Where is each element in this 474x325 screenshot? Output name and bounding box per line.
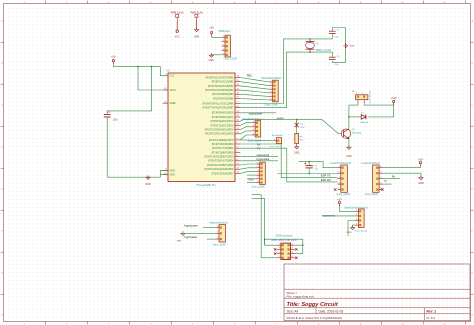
svg-text:Date: 2019-02-03: Date: 2019-02-03	[319, 309, 344, 313]
svg-text:(PCINT7/XTAL2/TOSC2)PB7: (PCINT7/XTAL2/TOSC2)PB7	[203, 107, 235, 110]
svg-text:(PCINT23/AIN1)PD7: (PCINT23/AIN1)PD7	[211, 172, 234, 175]
svg-text:(PCINT2/SS/OC1B)PB2: (PCINT2/SS/OC1B)PB2	[208, 85, 234, 88]
node ESP-TX label	[321, 173, 331, 177]
wire pump	[240, 120, 322, 122]
svg-text:(PCINT6/XTAL1/TOSC1)PB6: (PCINT6/XTAL1/TOSC1)PB6	[203, 102, 235, 105]
wire J3 pin1	[240, 123, 252, 126]
svg-text:hygropower: hygropower	[184, 224, 198, 228]
ground GND (supersonic)	[347, 225, 355, 234]
wire ESP net top	[299, 162, 338, 168]
capacitor C4 polarized	[304, 162, 318, 170]
svg-text:SuperSonicConnector1: SuperSonicConnector1	[344, 206, 368, 209]
no-connect J11 right r4	[295, 257, 297, 259]
junction J11 left	[264, 238, 266, 240]
junction cap top	[308, 161, 310, 163]
connector J11 ESPConnector Conn_02x04_Odd_Even	[271, 234, 297, 259]
wire supersonic to J9 pin2	[322, 215, 355, 217]
connector J10 HygroConnector Conn_01x03	[210, 221, 229, 246]
wire emitter down	[348, 139, 350, 148]
connector J7 LevelConvHVwired Conn_01x05	[330, 162, 352, 196]
wire AVCC	[138, 67, 168, 90]
wire PB1 to J2	[240, 82, 269, 86]
svg-text:Conn_01x06: Conn_01x06	[265, 105, 279, 107]
connector J6 EngineConnector Conn_01x06	[251, 162, 265, 188]
connector J4 ResetPhase Conn_01x02	[269, 134, 283, 148]
wire J11 top box	[265, 239, 303, 253]
svg-text:Conn_01x06: Conn_01x06	[251, 187, 265, 189]
svg-text:GND: GND	[170, 174, 176, 177]
svg-text:RX: RX	[257, 142, 261, 146]
wire J3 pin3	[240, 131, 252, 134]
power +5V (ESP)	[418, 158, 423, 166]
ground GND (crystal)	[343, 44, 354, 48]
diode D1 1N4148 flyback	[360, 112, 368, 123]
svg-text:(PCINT16/RXD)PD0: (PCINT16/RXD)PD0	[212, 143, 234, 146]
svg-text:(PCINT9/ADC1)PC1: (PCINT9/ADC1)PC1	[212, 116, 234, 119]
svg-text:(PCINT12/SDA/ADC4)PC4: (PCINT12/SDA/ADC4)PC4	[205, 129, 234, 132]
svg-text:VCC: VCC	[175, 36, 180, 38]
wire supersonic (MCU)	[240, 156, 278, 158]
svg-text:(PCINT22/OC0A/AIN0)PD6: (PCINT22/OC0A/AIN0)PD6	[204, 168, 234, 171]
svg-text:1N4148: 1N4148	[360, 122, 368, 124]
svg-text:Conn_01x01: Conn_01x01	[269, 146, 282, 148]
svg-text:+5V: +5V	[337, 198, 342, 201]
svg-text:GND: GND	[170, 169, 176, 172]
power flag PWR_FLAG #2 with GND	[190, 12, 203, 39]
ground GND (ESP)	[418, 176, 424, 186]
node RX label	[257, 142, 261, 146]
svg-text:G: G	[471, 273, 473, 275]
wire diode anode to collector	[349, 116, 361, 118]
power flag PWR_FLAG #1 with VCC	[171, 12, 184, 39]
wire J6 pin1	[240, 164, 256, 165]
svg-text:GND: GND	[347, 232, 352, 234]
svg-text:(PCINT20/XCK/T0)PD4: (PCINT20/XCK/T0)PD4	[208, 160, 234, 163]
junction cap bottom	[308, 173, 310, 175]
wire LED to R3	[296, 128, 298, 134]
svg-text:Id: 1/1: Id: 1/1	[427, 316, 436, 320]
capacitor C3 22p	[329, 56, 340, 66]
svg-text:(PCINT11/ADC3)PC3: (PCINT11/ADC3)PC3	[211, 124, 235, 127]
wire PB4 to J2	[240, 94, 269, 96]
svg-text:2N2219A: 2N2219A	[352, 131, 362, 134]
wire crystal bottom to C3	[310, 52, 332, 56]
svg-text:100n: 100n	[113, 120, 119, 122]
ground GND (USB)	[209, 53, 215, 62]
svg-text:Title: Soggy Circuit: Title: Soggy Circuit	[287, 302, 339, 308]
ground GND (MCU)	[145, 175, 151, 186]
wire collector up	[348, 105, 350, 129]
ground GND (hygro)	[177, 231, 185, 242]
power +12V	[391, 97, 397, 105]
wire J6 route A	[252, 195, 261, 258]
wire C2 to gnd rail	[332, 28, 345, 63]
wire +5V rail	[113, 64, 168, 76]
svg-text:GND: GND	[145, 183, 151, 186]
svg-text:Conn_01x04: Conn_01x04	[248, 141, 262, 143]
svg-text:PB0: PB0	[247, 74, 252, 78]
no-connect J11 left r3	[274, 252, 276, 254]
wire ESP-TX	[281, 144, 337, 178]
wire J8 pin1 to +5V	[383, 166, 421, 168]
svg-text:GND: GND	[209, 59, 215, 62]
node Rx label	[392, 175, 396, 179]
node hygrovalue label (MCU)	[257, 157, 270, 161]
svg-text:ESP-RX: ESP-RX	[321, 178, 331, 182]
wire hygrovalue to J10 pin3	[207, 238, 216, 240]
capacitor C2 22p	[329, 30, 340, 39]
power +5V (supersonic)	[337, 198, 342, 206]
svg-text:hygrovalue: hygrovalue	[184, 235, 197, 239]
svg-text:hygropower: hygropower	[249, 112, 263, 116]
svg-text:(PCINT0/CLKO/ICP1)PB0: (PCINT0/CLKO/ICP1)PB0	[206, 76, 234, 79]
wire GND pin22	[160, 174, 168, 176]
wire XTAL1 vertical	[240, 39, 310, 104]
wire J6 route B	[252, 198, 265, 245]
svg-text:GND: GND	[346, 155, 352, 158]
svg-text:HygroConnector1: HygroConnector1	[210, 221, 229, 224]
crystal Y1 16MHz	[306, 39, 332, 52]
node supersonic label (MCU)	[257, 153, 270, 157]
wire to C1	[107, 67, 151, 114]
svg-text:Conn_01x03: Conn_01x03	[213, 245, 227, 247]
wire pin2 long	[277, 173, 337, 175]
wire PB2 to J2	[240, 86, 269, 89]
node PD5 label	[249, 178, 254, 181]
svg-text:LevelConvHVwired1: LevelConvHVwired1	[330, 162, 352, 165]
svg-text:16Mhz_Crystal: 16Mhz_Crystal	[316, 49, 332, 52]
wire +5V to J9 pin1	[339, 206, 355, 211]
svg-text:ATmega328P-PU: ATmega328P-PU	[196, 184, 216, 187]
svg-text:GND: GND	[294, 151, 300, 154]
wire hygropower to J10 pin1	[203, 227, 216, 229]
node Tx label	[384, 179, 388, 183]
wire GND to J10 pin2	[183, 232, 216, 234]
svg-text:GND: GND	[418, 182, 424, 185]
svg-text:Conn_02x04_Odd_Even: Conn_02x04_Odd_Even	[271, 240, 297, 242]
connector J5 PumpConnector Conn_01x02	[352, 90, 372, 103]
svg-text:G: G	[1, 273, 3, 275]
svg-text:AVCC: AVCC	[170, 89, 177, 92]
svg-text:AREF: AREF	[170, 102, 177, 105]
svg-text:BinaryRotaryPhase: BinaryRotaryPhase	[262, 77, 283, 80]
wire PB3 to J2	[240, 90, 269, 93]
svg-text:Conn_01x05: Conn_01x05	[365, 194, 379, 196]
connector J2 BinaryRotaryPhase Conn_01x06	[262, 77, 283, 107]
svg-text:TX: TX	[257, 147, 261, 151]
wire J8 pin4 Tx	[383, 183, 392, 185]
wire J6 pin4	[247, 174, 256, 176]
junction crystal top	[309, 38, 311, 40]
wire cap stem top	[308, 162, 310, 166]
svg-text:Size: A4: Size: A4	[287, 309, 299, 313]
junction +5V rail B	[151, 66, 153, 68]
wire J11 left r4	[261, 257, 276, 259]
svg-text:ESPConnector1: ESPConnector1	[276, 234, 293, 237]
svg-text:ESP-TX: ESP-TX	[321, 173, 331, 177]
svg-text:(PCINT19/OC2B/INT1)PD3: (PCINT19/OC2B/INT1)PD3	[204, 156, 234, 159]
wire J3 pin4	[240, 135, 252, 140]
svg-text:Conn_01x05: Conn_01x05	[337, 194, 351, 196]
svg-text:VCC: VCC	[170, 75, 175, 78]
wire XTAL2 vertical	[240, 52, 310, 108]
svg-text:ResetPind1: ResetPind1	[272, 134, 284, 137]
wire J9 pin4 to GND	[353, 225, 355, 227]
svg-text:(PCINT17/TXD)PD1: (PCINT17/TXD)PD1	[212, 147, 234, 150]
junction pump	[296, 119, 298, 121]
svg-text:(PCINT21/OC0B/T1)PD5: (PCINT21/OC0B/T1)PD5	[207, 164, 234, 167]
svg-text:LevelConvHVout1: LevelConvHVout1	[362, 162, 381, 165]
op-amp U1 ATmega328P-PU microcontroller	[163, 70, 241, 187]
wire TX	[240, 147, 286, 149]
wire J3 pin2	[240, 127, 252, 130]
wire J8 pin2 to GND	[383, 173, 422, 177]
node pump label	[277, 117, 284, 120]
svg-text:(PCINT3/OC2A/MOSI)PB3: (PCINT3/OC2A/MOSI)PB3	[205, 89, 234, 92]
connector J1 USBPower Conn_01x05	[218, 30, 237, 60]
wire crystal top to C2	[310, 34, 332, 39]
svg-text:supersonic: supersonic	[322, 213, 335, 217]
connector J3 AnalogRotaryPhase Conn_01x04	[241, 118, 262, 142]
svg-text:+5V: +5V	[209, 27, 214, 30]
wire cap bottom	[308, 168, 310, 174]
node PB0 label	[247, 74, 252, 78]
wire pump conn left to collector	[349, 103, 358, 105]
junction GND rail	[147, 176, 149, 178]
node ESP-RX label	[321, 178, 331, 182]
svg-text:Conn_01x04: Conn_01x04	[355, 230, 368, 232]
wire +12V down to diode	[368, 105, 393, 117]
transistor Q1 2N2219A	[341, 129, 361, 139]
node supersonic label (conn)	[322, 213, 335, 217]
svg-text:Rev: 1: Rev: 1	[427, 309, 437, 313]
svg-text:(PCINT1/OC1A)PB1: (PCINT1/OC1A)PB1	[212, 81, 234, 84]
title block	[284, 264, 470, 321]
svg-text:GND: GND	[177, 241, 182, 243]
ground GND (emitter)	[346, 145, 352, 158]
wire PB0 to J2	[240, 78, 269, 83]
junction +5V rail A	[137, 66, 139, 68]
wire hygrovalue (MCU)	[240, 160, 278, 162]
junction J11 right	[302, 244, 304, 246]
svg-text:(PCINT4/MISO)PB4: (PCINT4/MISO)PB4	[212, 93, 234, 96]
wire pump diagonal to base	[322, 120, 341, 134]
svg-text:(PCINT13/SCL/ADC5)PC5: (PCINT13/SCL/ADC5)PC5	[205, 133, 234, 136]
wire +5V to pin1	[212, 36, 222, 37]
svg-text:+5V: +5V	[418, 158, 423, 161]
capacitor C1 100n	[104, 112, 119, 121]
wire J11 left r1	[265, 244, 277, 246]
node hygrovalue label (conn)	[184, 235, 197, 239]
wire pin5 to GND	[211, 54, 221, 56]
svg-text:supersonic: supersonic	[257, 153, 270, 157]
wire J6 pin3	[240, 171, 256, 173]
connector J8 LevelConvHVout Conn_01x05	[362, 162, 383, 196]
svg-text:GND: GND	[350, 46, 355, 48]
wire J9 pin3	[348, 221, 355, 237]
wire J6 pin6	[247, 182, 256, 184]
no-connect J7 pin5	[334, 188, 336, 190]
wire J6 pin2	[240, 168, 256, 169]
svg-text:+12V: +12V	[391, 97, 397, 100]
wire J6 pin5	[247, 178, 256, 180]
svg-text:KiCad E.D.A. kicad (5.0.1-3-g: KiCad E.D.A. kicad (5.0.1-3-g963e9ea0)	[287, 316, 342, 320]
junction crystal bottom	[309, 51, 311, 53]
connector J9 SuperSonicConnector Conn_01x04	[344, 206, 368, 232]
wire PB5 to J2	[240, 99, 269, 101]
junction collector-diode	[348, 116, 350, 118]
wire PC0 hygropower	[240, 112, 276, 114]
wire ESP-RX	[287, 148, 338, 182]
svg-text:(PCINT5/SCK)PB5: (PCINT5/SCK)PB5	[213, 97, 234, 100]
svg-text:File: soggy-final.sch: File: soggy-final.sch	[287, 295, 315, 299]
node hygropower label (MCU)	[249, 112, 263, 116]
wire pump conn right to +12V	[364, 103, 394, 105]
power +5V (USB)	[209, 27, 214, 36]
svg-text:Conn_01x05: Conn_01x05	[224, 59, 238, 61]
no-connect J11 right r2	[295, 248, 297, 250]
svg-text:USBPower1: USBPower1	[218, 30, 231, 33]
svg-text:(PCINT18/INT0)PD2: (PCINT18/INT0)PD2	[212, 151, 235, 154]
svg-text:(PCINT14/RESET)PC6: (PCINT14/RESET)PC6	[209, 139, 234, 142]
power +5V (MCU rail)	[111, 56, 116, 65]
svg-text:hygrovalue: hygrovalue	[257, 157, 270, 161]
no-connect J8 pin5	[381, 188, 383, 190]
wire J8 pin3 Rx	[383, 178, 400, 180]
svg-text:(PCINT8/ADC0)PC0: (PCINT8/ADC0)PC0	[212, 112, 234, 115]
wire R3 to GND	[296, 144, 298, 147]
svg-text:Conn_01x02: Conn_01x02	[370, 90, 372, 103]
svg-text:(PCINT10/ADC2)PC2: (PCINT10/ADC2)PC2	[210, 120, 234, 123]
node hygropower label (conn)	[184, 224, 198, 228]
wire RX	[240, 143, 281, 145]
wire RESET to J4	[240, 139, 273, 142]
svg-text:LED: LED	[300, 127, 305, 129]
LED D2 pump indicator	[295, 120, 305, 129]
svg-text:+5V: +5V	[111, 56, 116, 59]
svg-text:GND: GND	[194, 35, 200, 38]
node TX label	[257, 147, 261, 151]
no-connect J11 left r2	[274, 248, 276, 250]
ground GND (LED)	[294, 145, 300, 155]
wire J11 right r1	[295, 244, 303, 246]
wire C1 to GND rail	[107, 118, 168, 177]
resistor R3 220	[295, 134, 304, 144]
